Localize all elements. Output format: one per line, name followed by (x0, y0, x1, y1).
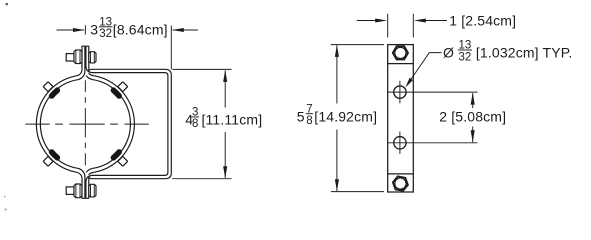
bottom bolt hex head (end view) (393, 176, 408, 190)
top mounting hole (394, 86, 406, 98)
clamp band left half outer surface (36, 46, 82, 198)
bottom hole centerlines / extension (388, 132, 478, 155)
clamp tab lower-right (118, 156, 128, 166)
clamp tab lower-left (43, 156, 53, 166)
offset bracket strap outer line (89, 46, 172, 198)
svg-text:[1.032cm] TYP.: [1.032cm] TYP. (476, 45, 573, 61)
dimension 2in vertical line with arrows (472, 93, 474, 142)
svg-text:Ø: Ø (443, 45, 454, 61)
shear slot lower-right (dark) (113, 152, 119, 158)
dimension 5-7/8 vertical line with arrows (336, 45, 338, 191)
bottom bolt threaded end (66, 187, 74, 195)
shear slot upper-right (dark) (113, 90, 119, 96)
bottom bolt head (right) (89, 184, 96, 197)
bottom bolt hex nut (left) (74, 184, 82, 198)
dimension 4-3/8 extension lines (172, 69, 231, 178)
svg-text:[8.64cm]: [8.64cm] (113, 22, 168, 38)
dimension 1in right arrow and line (423, 20, 447, 22)
hole diameter leader with arrow (408, 53, 442, 85)
dimension 3-13/32 extension line right (170, 26, 172, 70)
svg-text:32: 32 (99, 28, 112, 40)
clamp band right half inner surface (86, 76, 130, 173)
dimension 5-7/8 extension lines (331, 45, 384, 192)
vertical centerline of clamp (84, 25, 86, 165)
svg-text:5: 5 (297, 108, 305, 124)
svg-text:[11.11cm]: [11.11cm] (202, 112, 263, 128)
svg-text:2 [5.08cm]: 2 [5.08cm] (439, 108, 506, 124)
top bolt threaded end (66, 54, 74, 61)
bar bend lines above nuts (388, 64, 414, 174)
dimension 1in extension ticks (388, 14, 414, 38)
speck bottom-left (5, 209, 7, 211)
offset bracket strap inner line (86, 46, 168, 198)
clamp band left half inner surface (40, 46, 85, 198)
svg-text:32: 32 (459, 51, 472, 63)
clamp band right half outer surface (89, 73, 135, 175)
mounting bar outline (388, 45, 414, 192)
dimension 3-13/32 leader right with arrow (173, 29, 198, 31)
dimension 4-3/8 vertical line with arrows (224, 70, 226, 178)
svg-text:3: 3 (90, 22, 98, 38)
shear slot upper-left (dark) (52, 90, 58, 96)
svg-text:8: 8 (306, 115, 312, 127)
dimension 3-13/32 leader left with arrow (57, 29, 85, 31)
top bolt hex head (end view) (393, 46, 408, 59)
clamp tab upper-right (118, 82, 128, 92)
dimension 1in left arrow (357, 20, 378, 22)
svg-text:8: 8 (192, 118, 198, 130)
speck top-left (6, 3, 9, 5)
shear slot lower-left (dark) (52, 152, 58, 158)
svg-text:1 [2.54cm]: 1 [2.54cm] (449, 13, 516, 29)
top bolt head (right) (89, 52, 96, 63)
top bolt hex nut (left) (74, 50, 82, 64)
horizontal centerline of clamp (26, 123, 149, 125)
clamp tab upper-left (43, 82, 53, 92)
bottom mounting hole (394, 137, 406, 149)
svg-text:[14.92cm]: [14.92cm] (314, 108, 377, 124)
top hole centerlines / extension (388, 81, 478, 104)
flange plate end caps (82, 46, 90, 198)
